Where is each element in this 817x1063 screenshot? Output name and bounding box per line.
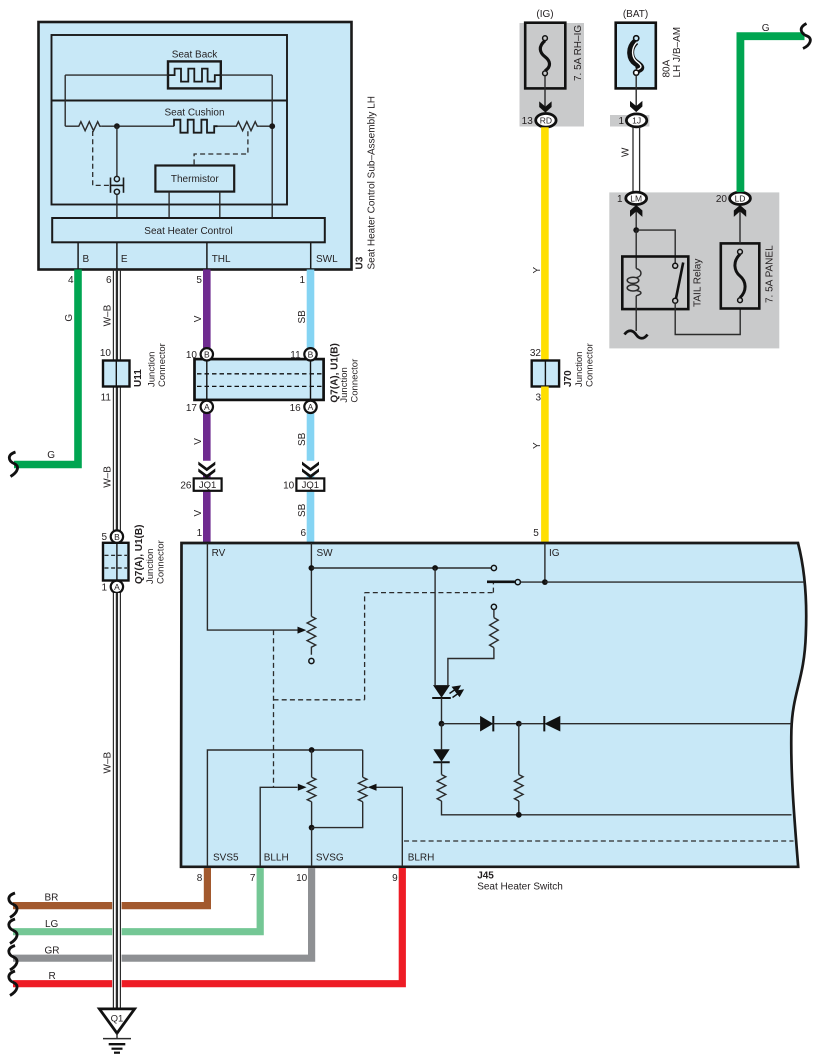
dashed mech link horiz up xyxy=(365,592,494,594)
ground bar 1 xyxy=(103,1038,131,1040)
arrow down to 1J xyxy=(630,101,642,112)
svg-text:J70: J70 xyxy=(563,370,574,387)
potentiometer left zigzag xyxy=(307,777,316,801)
wire node to coil xyxy=(635,230,637,268)
squiggle G break xyxy=(801,24,810,49)
wire contact to IG node xyxy=(520,581,545,583)
wire Y lower xyxy=(541,387,549,543)
pin stub THL xyxy=(206,242,208,269)
svg-text:V: V xyxy=(193,510,204,517)
wire through tall box xyxy=(116,543,118,581)
diode D2 xyxy=(543,716,545,731)
svg-text:5: 5 xyxy=(533,528,539,539)
fusible link 80A box xyxy=(616,23,656,89)
LED bar xyxy=(432,697,451,699)
wire V middle xyxy=(203,413,211,461)
svg-text:8: 8 xyxy=(197,873,203,884)
svg-text:SVS5: SVS5 xyxy=(213,853,239,864)
svg-text:Junction: Junction xyxy=(574,352,585,387)
svg-text:W–B: W–B xyxy=(102,466,113,488)
dashed line 2 in wide box xyxy=(197,385,322,387)
relay box xyxy=(622,257,688,310)
node SVSG xyxy=(309,825,315,831)
svg-text:SB: SB xyxy=(297,432,308,446)
wire diode1 to node xyxy=(493,723,519,725)
LED triangle xyxy=(433,685,450,698)
node diode row mid xyxy=(516,721,522,727)
wire resistor down and exit right xyxy=(442,801,792,815)
svg-text:7. 5A RH–IG: 7. 5A RH–IG xyxy=(573,25,584,81)
heater element Seat Back wave xyxy=(168,69,221,82)
wire node to pot right bottom xyxy=(312,802,363,828)
wire V stub above JQ1 xyxy=(203,474,211,478)
hook GR xyxy=(9,946,17,971)
svg-text:6: 6 xyxy=(106,275,112,286)
dashed line 1 in wide box xyxy=(197,373,322,375)
svg-text:Connector: Connector xyxy=(157,343,168,387)
wire SW node down to LED xyxy=(434,568,436,685)
svg-text:Junction: Junction xyxy=(147,352,158,387)
node cushion right xyxy=(269,123,275,129)
svg-text:Seat Heater Control Sub–Assemb: Seat Heater Control Sub–Assembly LH xyxy=(367,96,378,269)
svg-text:SVSG: SVSG xyxy=(316,853,344,864)
wire to resistor xyxy=(493,610,495,618)
switch contact in U3 xyxy=(111,176,124,194)
svg-text:Seat Cushion: Seat Cushion xyxy=(164,108,224,119)
relay switch bottom contact xyxy=(673,298,678,303)
RV wiper arrowhead xyxy=(298,627,307,634)
wire W double line xyxy=(633,127,640,192)
svg-text:RD: RD xyxy=(540,116,552,126)
JQ1 box V xyxy=(194,478,222,490)
U11 divider xyxy=(115,361,117,387)
double arrow V xyxy=(198,462,215,479)
wire node down to diode 3 xyxy=(441,724,443,750)
terminal B circle SB xyxy=(304,348,316,360)
svg-text:G: G xyxy=(64,314,75,322)
svg-text:17: 17 xyxy=(186,403,198,414)
svg-text:16: 16 xyxy=(290,403,302,414)
resistor mid zigzag xyxy=(515,775,524,801)
svg-text:11: 11 xyxy=(290,350,301,361)
hook LG xyxy=(9,919,17,944)
svg-text:Seat Back: Seat Back xyxy=(172,50,219,61)
svg-text:(IG): (IG) xyxy=(536,9,553,20)
wire panel fuse to LD xyxy=(739,206,741,244)
svg-text:B: B xyxy=(204,350,210,360)
RV line xyxy=(207,543,298,630)
fuse 7.5A RH-IG box xyxy=(525,23,565,89)
svg-text:6: 6 xyxy=(300,528,306,539)
node bottom line xyxy=(516,812,522,818)
wire IG exit right xyxy=(545,581,805,583)
resistor cushion right xyxy=(234,122,260,131)
double arrow SB xyxy=(302,462,319,479)
svg-text:W–B: W–B xyxy=(102,752,113,774)
relay switch blade xyxy=(676,263,683,299)
wire thermistor left leg xyxy=(168,192,170,218)
SW line down xyxy=(310,543,312,616)
wire left vertical xyxy=(64,75,66,126)
wire thermistor right leg xyxy=(219,192,221,218)
ground stem xyxy=(116,1033,118,1038)
svg-text:Connector: Connector xyxy=(350,359,361,403)
IG drop line xyxy=(544,543,546,582)
switch fixed contact xyxy=(515,580,520,585)
svg-text:RV: RV xyxy=(212,548,226,559)
svg-text:Connector: Connector xyxy=(585,343,596,387)
wire R xyxy=(13,868,402,984)
svg-text:13: 13 xyxy=(522,116,534,127)
box J45 xyxy=(181,543,806,867)
wire diode2 exit right xyxy=(560,723,791,725)
svg-text:20: 20 xyxy=(716,194,728,205)
dashed actuator from left resistor xyxy=(93,131,109,185)
svg-text:10: 10 xyxy=(283,481,295,492)
TAIL relay gray background xyxy=(609,192,779,348)
svg-text:SB: SB xyxy=(297,503,308,517)
fuse 7.5A PANEL box xyxy=(721,243,760,308)
dashed line 2 in tall box xyxy=(105,567,128,569)
pin stub SWL xyxy=(310,242,312,269)
dashed from right resistor to thermistor xyxy=(194,131,248,164)
svg-text:7. 5A PANEL: 7. 5A PANEL xyxy=(765,245,776,303)
terminal B circle (tall) xyxy=(111,530,123,542)
terminal oval 1J xyxy=(626,114,646,127)
J70 divider xyxy=(544,361,546,387)
wire switch to control box xyxy=(116,194,118,218)
resistor IG branch zigzag xyxy=(490,618,499,648)
svg-text:LG: LG xyxy=(45,919,59,930)
SW horizontal line xyxy=(311,567,491,569)
arrow down to RD xyxy=(539,101,551,112)
wire seat back left xyxy=(65,74,168,76)
fuse element PANEL xyxy=(735,249,745,302)
wire LED to node xyxy=(441,698,443,724)
fusible link element xyxy=(631,36,641,76)
ground bar 3 xyxy=(112,1048,123,1050)
terminal A circle V xyxy=(201,401,213,413)
svg-text:SWL: SWL xyxy=(316,254,338,265)
svg-text:80A: 80A xyxy=(662,59,673,77)
ground bar 2 xyxy=(109,1043,126,1045)
terminal A circle SB xyxy=(304,401,316,413)
svg-text:1J: 1J xyxy=(632,116,641,126)
svg-text:W: W xyxy=(621,147,632,157)
BLLH line xyxy=(260,787,297,866)
svg-text:THL: THL xyxy=(212,254,231,265)
squiggle relay ground xyxy=(625,331,648,339)
svg-text:R: R xyxy=(49,971,56,982)
svg-text:1: 1 xyxy=(299,275,305,286)
node diode row left xyxy=(439,721,445,727)
svg-text:1: 1 xyxy=(197,528,203,539)
1J gray strip xyxy=(610,115,649,127)
wire pot left bottom xyxy=(311,802,313,828)
Seat Heater Control box xyxy=(52,218,325,242)
svg-text:5: 5 xyxy=(101,532,107,543)
wiper arrow right pot xyxy=(368,784,377,791)
wire node to switch xyxy=(116,126,118,176)
svg-text:A: A xyxy=(308,402,314,412)
BLRH line xyxy=(376,787,402,866)
svg-text:U11: U11 xyxy=(133,369,144,387)
svg-text:LH J/B–AM: LH J/B–AM xyxy=(672,27,683,78)
junction connector Q7/U1 tall box xyxy=(103,543,129,581)
wire seat back right xyxy=(221,74,272,76)
diode D3 xyxy=(433,749,449,762)
wire pot left top stub xyxy=(311,750,313,777)
wire G top xyxy=(740,36,804,192)
heater element Seat Back box xyxy=(168,61,221,88)
thermistor box xyxy=(155,166,234,192)
svg-text:1: 1 xyxy=(618,116,624,127)
wire diode3 to resistor xyxy=(441,762,443,774)
potentiometer right zigzag xyxy=(358,777,367,801)
svg-text:Y: Y xyxy=(532,442,543,449)
SVSG line xyxy=(311,828,313,866)
svg-text:E: E xyxy=(121,254,128,265)
svg-text:Q7(A), U1(B): Q7(A), U1(B) xyxy=(134,525,145,584)
wire fuse to RD xyxy=(544,76,546,108)
svg-text:Y: Y xyxy=(532,267,543,274)
fuse element IG xyxy=(540,36,549,76)
wire Y upper xyxy=(541,127,549,361)
svg-text:1: 1 xyxy=(101,582,107,593)
svg-text:10: 10 xyxy=(186,350,198,361)
arrow up to LD xyxy=(734,205,746,217)
wire SB through wide box xyxy=(310,359,312,400)
svg-text:10: 10 xyxy=(100,348,112,359)
wire node to diode 2 xyxy=(519,723,545,725)
svg-text:BLLH: BLLH xyxy=(264,853,289,864)
svg-text:(BAT): (BAT) xyxy=(623,9,648,20)
relay coil xyxy=(627,269,641,296)
svg-text:W–B: W–B xyxy=(102,304,113,326)
svg-text:10: 10 xyxy=(296,873,308,884)
junction connector Q7/U1 wide box xyxy=(195,359,324,400)
svg-text:Seat Heater Switch: Seat Heater Switch xyxy=(477,882,563,893)
svg-text:Seat Heater Control: Seat Heater Control xyxy=(144,226,232,237)
svg-text:Thermistor: Thermistor xyxy=(171,174,219,185)
wire G green xyxy=(14,270,78,465)
wire node to switch branch xyxy=(636,230,675,263)
svg-text:BR: BR xyxy=(45,893,59,904)
dashed mech link to switch xyxy=(492,583,494,593)
svg-text:B: B xyxy=(83,254,90,265)
wire V through wide box xyxy=(206,359,208,400)
wiper arrow left pot xyxy=(298,784,307,791)
wire V upper xyxy=(203,270,211,349)
open terminal below potentiometer xyxy=(309,658,314,663)
node cushion left xyxy=(114,123,120,129)
svg-text:Junction: Junction xyxy=(339,367,350,402)
box U3 xyxy=(39,22,352,270)
arrow up from relay to LM xyxy=(635,206,637,231)
svg-text:U3: U3 xyxy=(355,256,366,269)
dashed mech link horiz low xyxy=(274,699,365,701)
svg-text:26: 26 xyxy=(180,481,192,492)
svg-text:TAIL Relay: TAIL Relay xyxy=(693,259,704,307)
dashed bottom exit xyxy=(404,840,794,842)
svg-text:JQ1: JQ1 xyxy=(302,480,319,491)
wire SB middle xyxy=(307,413,315,461)
hook R xyxy=(9,971,17,996)
svg-text:11: 11 xyxy=(101,392,112,403)
hook BR xyxy=(9,893,17,918)
svg-text:Junction: Junction xyxy=(145,549,156,584)
terminal B circle V xyxy=(201,348,213,360)
wire coil down xyxy=(635,296,637,331)
svg-text:V: V xyxy=(193,315,204,322)
svg-text:5: 5 xyxy=(196,275,202,286)
junction connector J70 box xyxy=(532,361,559,387)
svg-text:1: 1 xyxy=(617,194,623,205)
svg-text:B: B xyxy=(308,350,314,360)
terminal oval RD xyxy=(536,114,556,128)
svg-text:Connector: Connector xyxy=(156,540,167,584)
svg-text:G: G xyxy=(762,23,770,34)
wire SB lower xyxy=(307,491,315,543)
node pot top xyxy=(309,747,315,753)
wire BR xyxy=(13,868,207,906)
svg-text:32: 32 xyxy=(530,348,542,359)
svg-text:G: G xyxy=(47,450,55,461)
wire to diode 1 xyxy=(442,723,481,725)
dashed mech link vertical left xyxy=(273,630,275,787)
svg-text:4: 4 xyxy=(68,275,74,286)
svg-text:LM: LM xyxy=(630,194,642,204)
svg-text:B: B xyxy=(114,532,120,542)
wire LG xyxy=(13,868,260,932)
wire resistor to LED top xyxy=(448,648,494,686)
heater element Seat Cushion wave xyxy=(174,120,218,133)
resistor branch open terminal xyxy=(491,604,496,609)
svg-text:BLRH: BLRH xyxy=(408,853,435,864)
junction connector U11 box xyxy=(103,361,130,387)
svg-text:JQ1: JQ1 xyxy=(199,480,216,491)
svg-text:3: 3 xyxy=(535,392,541,403)
svg-text:GR: GR xyxy=(45,946,60,957)
diode D1 xyxy=(480,716,493,732)
dashed mech link vertical mid xyxy=(364,593,366,700)
pin stub E xyxy=(116,242,118,269)
wire to right node xyxy=(260,125,273,127)
resistor cushion left xyxy=(77,122,102,131)
IG fuse gray background xyxy=(520,23,585,127)
terminal oval LM xyxy=(626,192,647,204)
wire SB stub above JQ1 xyxy=(307,474,315,478)
wire SB upper xyxy=(307,270,315,349)
node SW xyxy=(309,565,315,571)
divider line inner frame xyxy=(52,100,288,102)
SW open contact xyxy=(491,565,496,570)
wire cushion row xyxy=(65,125,76,127)
svg-text:A: A xyxy=(204,402,210,412)
connector hook G xyxy=(9,452,17,477)
SVS5 line xyxy=(207,750,362,866)
wire to node xyxy=(102,125,174,127)
svg-text:IG: IG xyxy=(549,548,560,559)
JQ1 box SB xyxy=(296,478,324,490)
wire W-B upper xyxy=(113,270,120,531)
relay switch top contact xyxy=(673,263,678,268)
svg-text:SB: SB xyxy=(297,310,308,324)
inner frame of U3 xyxy=(52,35,288,205)
node IG xyxy=(542,579,548,585)
wire link to 1J xyxy=(635,75,637,107)
wire relay switch to panel fuse xyxy=(675,303,740,334)
svg-text:9: 9 xyxy=(392,873,398,884)
wire to right resistor xyxy=(218,125,235,127)
terminal oval LD xyxy=(730,192,751,204)
svg-text:SW: SW xyxy=(317,548,334,559)
node relay top xyxy=(633,227,639,233)
ground triangle Q1 xyxy=(99,1009,134,1033)
pin stub B xyxy=(77,242,79,269)
wire resistor mid to bottom line xyxy=(518,801,520,815)
terminal A circle (tall) xyxy=(111,581,123,593)
svg-text:V: V xyxy=(193,438,204,445)
node LED branch xyxy=(432,565,438,571)
wire right vertical to control xyxy=(271,75,273,218)
wire node mid down to resistor xyxy=(518,724,520,775)
potentiometer RV zigzag xyxy=(307,616,316,654)
switch blade bar xyxy=(487,580,515,583)
resistor below diode3 xyxy=(437,775,446,801)
wire W-B lower xyxy=(112,593,121,1009)
wire GR xyxy=(13,868,312,958)
wire V lower xyxy=(203,491,211,543)
svg-text:7: 7 xyxy=(250,873,256,884)
wire pot right top stub xyxy=(362,750,364,777)
svg-text:LD: LD xyxy=(735,194,746,204)
svg-text:A: A xyxy=(114,582,120,592)
dashed line 1 in tall box xyxy=(105,554,128,556)
LED emission arrows xyxy=(450,686,463,697)
svg-text:J45: J45 xyxy=(477,871,494,882)
svg-text:Q1: Q1 xyxy=(111,1014,124,1025)
ground bar 4 xyxy=(114,1052,120,1054)
